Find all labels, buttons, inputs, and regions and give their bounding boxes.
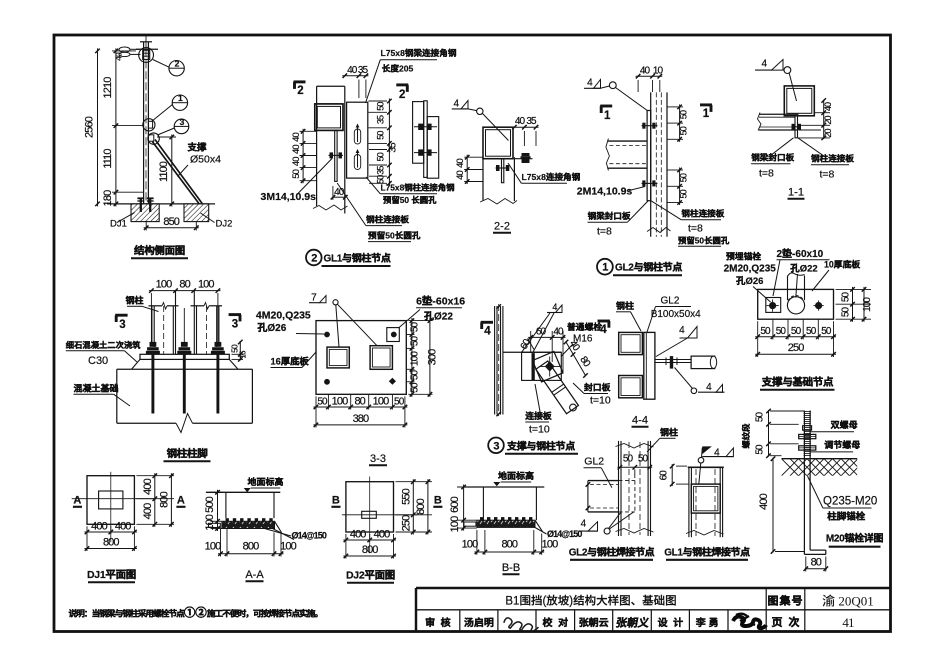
P dim 60 <box>676 465 687 467</box>
svg-text:A: A <box>73 495 81 507</box>
svg-text:2: 2 <box>399 89 405 101</box>
svg-text:35: 35 <box>375 115 385 124</box>
svg-text:40: 40 <box>291 145 302 154</box>
svg-text:GL2: GL2 <box>661 296 680 307</box>
N left dims 600 100 <box>457 486 477 488</box>
N ground top line <box>464 486 545 488</box>
svg-text:50: 50 <box>409 370 420 381</box>
Q nuts <box>799 434 816 438</box>
svg-text:汤启明: 汤启明 <box>464 617 494 629</box>
svg-text:100: 100 <box>205 541 221 553</box>
L slab dark band <box>222 521 275 528</box>
svg-text:100: 100 <box>280 541 296 553</box>
svg-text:DJ2: DJ2 <box>216 219 233 230</box>
svg-text:说明：当钢梁与钢柱采用螺栓节点①②施工不便时，可按焊接节点实: 说明：当钢梁与钢柱采用螺栓节点①②施工不便时，可按焊接节点实施。 <box>69 607 323 620</box>
K square <box>87 476 134 525</box>
svg-text:20: 20 <box>823 129 833 138</box>
I square tube 1 <box>619 332 643 354</box>
H gusset rect outline <box>522 352 562 380</box>
svg-text:孔Ø26: 孔Ø26 <box>736 275 763 287</box>
svg-text:50: 50 <box>291 169 302 178</box>
H dim 60 40 top <box>530 331 532 353</box>
svg-text:3-3: 3-3 <box>370 453 386 465</box>
svg-text:100: 100 <box>409 351 420 366</box>
B side view right plate <box>427 117 439 179</box>
svg-text:800: 800 <box>158 491 170 507</box>
O column band <box>618 441 620 536</box>
D dim 40 10 top <box>637 80 639 92</box>
I weld flag 4 bottom <box>691 388 697 394</box>
C dim 40 35 <box>523 131 525 146</box>
svg-text:6垫-60x16: 6垫-60x16 <box>416 295 465 308</box>
H title circle 3 支撑与钢柱节点 <box>488 438 504 454</box>
D bolts 2M14 <box>642 125 658 127</box>
svg-text:2M20,Q235: 2M20,Q235 <box>724 264 777 275</box>
svg-text:100: 100 <box>156 279 172 291</box>
B bolt M14 <box>329 154 344 156</box>
svg-text:t=8: t=8 <box>820 169 835 181</box>
A ground line <box>107 203 215 205</box>
svg-text:3: 3 <box>493 440 499 452</box>
N bottom dims 100 800 100 <box>476 530 478 555</box>
G square hole 2 <box>370 346 392 370</box>
A top rail line <box>136 48 158 50</box>
I center web plate <box>644 332 655 399</box>
drawing D column <box>650 92 652 236</box>
svg-text:400: 400 <box>142 503 154 519</box>
svg-text:50: 50 <box>375 131 385 140</box>
svg-text:100: 100 <box>332 395 348 407</box>
svg-text:钢柱: 钢柱 <box>660 428 678 438</box>
svg-text:校 对: 校 对 <box>542 617 569 629</box>
svg-text:41: 41 <box>842 615 854 630</box>
C beam square <box>483 127 513 159</box>
N rebar bumps <box>480 517 483 520</box>
svg-text:400: 400 <box>115 521 131 533</box>
L ground top line <box>206 491 280 493</box>
B dim 40 35 top <box>358 80 360 99</box>
svg-text:审 核: 审 核 <box>425 617 451 629</box>
svg-text:A: A <box>177 495 185 507</box>
svg-text:预埋锚栓: 预埋锚栓 <box>726 252 761 262</box>
svg-text:500: 500 <box>204 496 216 512</box>
G right dim chain <box>406 334 414 336</box>
F foundation <box>117 368 253 370</box>
svg-text:50: 50 <box>806 326 817 337</box>
J bottom dims 50x5 / 250 <box>772 319 774 339</box>
svg-text:600: 600 <box>449 496 461 512</box>
outer border frame <box>54 35 891 632</box>
svg-text:柱脚锚栓: 柱脚锚栓 <box>827 511 866 523</box>
svg-text:螺纹段: 螺纹段 <box>741 423 751 449</box>
svg-text:50: 50 <box>375 102 385 111</box>
svg-text:300: 300 <box>426 349 438 365</box>
svg-text:100: 100 <box>198 279 214 291</box>
svg-text:80: 80 <box>811 557 822 569</box>
F anchor bolts x3 <box>150 342 157 347</box>
svg-text:100: 100 <box>449 516 461 532</box>
I brace tube end <box>691 356 715 369</box>
D section mark 1 right <box>700 103 712 106</box>
svg-text:2M14,10.9s: 2M14,10.9s <box>577 186 633 198</box>
svg-text:50: 50 <box>394 396 405 407</box>
svg-text:35: 35 <box>358 65 369 76</box>
B section mark 2 right <box>396 83 408 86</box>
svg-text:长度205: 长度205 <box>382 64 414 74</box>
svg-text:40: 40 <box>291 133 302 142</box>
A anchor bolts in DJ1 <box>140 198 142 213</box>
C lower plate and bolt <box>502 159 504 183</box>
svg-text:800: 800 <box>415 498 427 514</box>
svg-text:1100: 1100 <box>158 161 170 182</box>
svg-text:t=10: t=10 <box>529 424 550 436</box>
svg-text:Ø14@150: Ø14@150 <box>547 529 582 539</box>
F extension lines from dim to bolts <box>150 293 152 342</box>
svg-text:B: B <box>332 495 340 507</box>
P beam square <box>691 484 720 513</box>
svg-text:35: 35 <box>526 116 537 127</box>
B dim 40 bottom <box>332 186 334 200</box>
svg-text:50: 50 <box>375 152 385 161</box>
H section mark 4 right <box>598 320 610 323</box>
svg-text:页 次: 页 次 <box>771 616 800 629</box>
A dim 850 <box>145 222 147 231</box>
svg-text:3M14,10.9s: 3M14,10.9s <box>261 191 317 203</box>
F grout trapezoid <box>132 359 141 369</box>
svg-text:钢柱: 钢柱 <box>616 301 634 311</box>
B side view middle strip <box>424 101 428 178</box>
svg-text:250: 250 <box>400 515 412 531</box>
B slot holes with arrows <box>354 129 360 144</box>
svg-text:400: 400 <box>758 493 770 509</box>
svg-text:结构侧面图: 结构侧面图 <box>133 244 185 257</box>
M bottom dims 400 400 / 800 <box>345 534 347 559</box>
svg-text:50: 50 <box>679 173 689 182</box>
title block table <box>416 587 891 589</box>
svg-text:800: 800 <box>362 544 378 556</box>
D title circle 1 GL2与钢柱节点 <box>597 259 613 275</box>
H rotated connection square <box>532 351 563 382</box>
svg-text:10厚底板: 10厚底板 <box>824 260 860 270</box>
svg-text:3: 3 <box>232 319 238 331</box>
A top detail bubble <box>139 48 154 63</box>
M square <box>346 482 394 532</box>
Q ground line + hatch <box>782 458 858 460</box>
svg-text:50: 50 <box>679 110 689 119</box>
svg-text:Q235-M20: Q235-M20 <box>823 496 877 508</box>
F section mark 3 left <box>115 314 127 317</box>
svg-text:GL2: GL2 <box>584 456 604 468</box>
svg-text:50: 50 <box>755 412 766 423</box>
svg-text:800: 800 <box>103 537 119 549</box>
J washer square <box>766 298 781 313</box>
svg-text:混凝土基础: 混凝土基础 <box>74 383 119 393</box>
N slab dark band <box>477 520 535 527</box>
svg-text:M16: M16 <box>573 334 593 345</box>
svg-text:钢柱: 钢柱 <box>125 296 143 306</box>
svg-text:4M20,Q235: 4M20,Q235 <box>256 310 311 322</box>
I square tube 2 <box>619 376 643 398</box>
B right dim chain upper <box>369 100 388 102</box>
svg-text:80: 80 <box>354 395 365 407</box>
svg-text:50: 50 <box>841 307 852 318</box>
B left dim chain 40 40 40 50 <box>300 130 317 132</box>
J right bolt <box>815 302 822 309</box>
svg-text:20: 20 <box>823 116 833 125</box>
svg-text:100: 100 <box>204 514 216 530</box>
svg-text:张朝义: 张朝义 <box>615 617 651 630</box>
svg-text:调节螺母: 调节螺母 <box>824 440 860 450</box>
svg-text:B1围挡(放坡)结构大样图、基础图: B1围挡(放坡)结构大样图、基础图 <box>505 595 676 608</box>
svg-text:10: 10 <box>653 65 664 76</box>
svg-text:50: 50 <box>821 326 832 337</box>
Q dim 80 <box>805 557 807 572</box>
C right bolt on plate <box>514 158 532 160</box>
svg-text:40: 40 <box>640 65 651 76</box>
J tube up <box>787 276 789 301</box>
svg-text:50: 50 <box>791 326 802 337</box>
F dim 50 16 right <box>232 353 244 355</box>
svg-text:2560: 2560 <box>84 116 96 138</box>
N side verticals <box>482 487 484 520</box>
B side view bolts <box>414 126 437 128</box>
svg-text:支撑: 支撑 <box>186 142 207 154</box>
K right dims 400 400 / 800 <box>136 475 174 477</box>
svg-text:图集号: 图集号 <box>768 595 804 608</box>
svg-text:50: 50 <box>409 322 420 333</box>
svg-text:L75x8连接角钢: L75x8连接角钢 <box>522 172 581 182</box>
M inner bar <box>362 511 377 518</box>
svg-text:40: 40 <box>455 171 466 180</box>
Q dim 400 <box>772 458 774 553</box>
svg-text:40: 40 <box>515 116 526 127</box>
svg-text:GL2与钢柱焊接节点: GL2与钢柱焊接节点 <box>569 547 655 559</box>
A lower bubble on post <box>148 133 159 144</box>
svg-text:50: 50 <box>409 336 420 347</box>
svg-text:50: 50 <box>755 444 766 455</box>
svg-text:800: 800 <box>243 541 259 553</box>
F top dim 100 80 100 <box>149 290 221 292</box>
drawing A 结构侧面图 post <box>145 37 147 50</box>
svg-text:400: 400 <box>142 478 154 494</box>
svg-text:孔Ø22: 孔Ø22 <box>790 263 817 275</box>
svg-text:A-A: A-A <box>245 569 264 581</box>
svg-text:GL2与钢柱节点: GL2与钢柱节点 <box>615 262 682 274</box>
svg-text:2垫-60x10: 2垫-60x10 <box>777 248 824 260</box>
A brace 支撑 <box>155 140 202 204</box>
svg-text:1110: 1110 <box>102 149 114 169</box>
svg-text:预留50长圆孔: 预留50长圆孔 <box>368 230 421 240</box>
svg-text:t=8: t=8 <box>597 226 612 238</box>
svg-text:t=8: t=8 <box>688 223 703 235</box>
A mid bubble on post <box>143 119 155 131</box>
A dim 2560 <box>97 48 99 206</box>
svg-text:Ø50x4: Ø50x4 <box>190 154 221 166</box>
svg-text:4-4: 4-4 <box>632 415 648 427</box>
P column band <box>688 467 690 537</box>
D connection plate <box>647 111 651 201</box>
svg-text:2: 2 <box>311 253 317 265</box>
svg-text:40: 40 <box>823 102 833 111</box>
svg-text:细石混凝土二次浇筑: 细石混凝土二次浇筑 <box>65 340 141 350</box>
svg-text:400: 400 <box>350 529 366 541</box>
G plate rect <box>316 321 406 395</box>
M right dims 550 250 / 800 <box>396 481 433 483</box>
svg-text:B-B: B-B <box>502 562 520 574</box>
L bottom dims 100 800 100 <box>220 529 222 557</box>
svg-text:M20锚栓详图: M20锚栓详图 <box>826 533 884 545</box>
E column square <box>784 86 814 116</box>
svg-text:100: 100 <box>373 395 389 407</box>
E beam from left <box>759 113 799 115</box>
svg-text:35: 35 <box>375 166 385 175</box>
svg-text:L75x8钢梁连接角钢: L75x8钢梁连接角钢 <box>381 48 457 58</box>
svg-text:40: 40 <box>347 65 358 76</box>
G square hole 1 <box>327 347 349 368</box>
svg-text:40: 40 <box>553 326 564 337</box>
svg-text:40: 40 <box>291 157 302 166</box>
Q rod L-bottom <box>803 550 805 554</box>
D beam left <box>607 140 647 142</box>
svg-text:DJ1平面图: DJ1平面图 <box>87 569 136 581</box>
C left dim chain 40 40 <box>464 156 483 158</box>
A footing DJ2 hatched <box>184 204 209 222</box>
svg-text:GL1与钢柱焊接节点: GL1与钢柱焊接节点 <box>664 547 750 559</box>
svg-text:1210: 1210 <box>102 77 114 99</box>
svg-text:1-1: 1-1 <box>788 187 804 199</box>
A detail circle 1 <box>172 95 187 110</box>
H column <box>494 306 496 415</box>
svg-text:支撑与钢柱节点: 支撑与钢柱节点 <box>506 440 575 452</box>
svg-text:B: B <box>434 495 442 507</box>
A detail circle 3 <box>174 119 189 134</box>
svg-text:双螺母: 双螺母 <box>830 420 858 430</box>
svg-text:钢梁封口板: 钢梁封口板 <box>588 211 631 221</box>
svg-text:t=8: t=8 <box>759 168 774 180</box>
F column 2 <box>191 305 205 307</box>
svg-text:100: 100 <box>542 539 558 551</box>
svg-text:C30: C30 <box>88 355 108 367</box>
svg-text:60: 60 <box>658 470 669 481</box>
H diagonal dim 40 80 <box>566 342 586 376</box>
A dim chain 1210/1110/180 <box>112 50 136 52</box>
L left dims 500 100 <box>211 491 222 493</box>
F column 1 <box>149 305 163 307</box>
H diamond bolt with cross <box>549 357 551 377</box>
svg-text:张朝云: 张朝云 <box>579 617 609 629</box>
svg-text:50: 50 <box>760 326 771 337</box>
svg-text:设 计: 设 计 <box>658 617 684 629</box>
P top cap line <box>688 466 724 468</box>
svg-text:2-2: 2-2 <box>494 221 510 233</box>
svg-text:李勇: 李勇 <box>695 617 722 629</box>
D section mark 1 left <box>600 105 612 108</box>
svg-text:DJ2平面图: DJ2平面图 <box>346 570 395 582</box>
svg-text:400: 400 <box>91 521 107 533</box>
svg-text:预留50 长圆孔: 预留50 长圆孔 <box>383 195 437 205</box>
svg-text:400: 400 <box>374 529 390 541</box>
svg-text:钢梁封口板: 钢梁封口板 <box>751 153 794 163</box>
L side verticals <box>225 492 227 518</box>
svg-text:50: 50 <box>776 326 787 337</box>
svg-text:35: 35 <box>388 142 399 153</box>
svg-text:钢柱柱脚: 钢柱柱脚 <box>167 447 209 460</box>
E connection plate below <box>795 116 798 138</box>
D right dim chain lower 50 50 <box>667 169 683 171</box>
I bolt assembly <box>655 359 691 361</box>
svg-text:16厚底板: 16厚底板 <box>271 356 310 367</box>
svg-text:100: 100 <box>862 297 873 312</box>
G bolt holes <box>324 332 330 338</box>
svg-text:80: 80 <box>179 279 190 291</box>
A detail circle 2 <box>169 60 184 75</box>
svg-text:渝 20Q01: 渝 20Q01 <box>822 594 874 609</box>
svg-text:预留50长圆孔: 预留50长圆孔 <box>678 235 730 245</box>
B right dim chain lower <box>369 149 387 151</box>
svg-text:孔Ø26: 孔Ø26 <box>257 322 286 334</box>
svg-text:50: 50 <box>623 454 634 465</box>
svg-text:50: 50 <box>679 126 689 135</box>
svg-text:Ø14@150: Ø14@150 <box>292 531 327 541</box>
B beam square GL1 <box>315 104 343 130</box>
F section mark 3 right <box>229 313 241 316</box>
H gusset plate thick bar <box>532 353 535 380</box>
O dim 50 50 <box>634 469 636 478</box>
svg-text:3: 3 <box>119 319 125 331</box>
J plate rect <box>758 289 834 319</box>
H brace tube <box>536 361 579 414</box>
svg-text:地面标高: 地面标高 <box>247 477 283 487</box>
A cap ellipse + 40 label <box>119 47 130 52</box>
svg-text:60: 60 <box>536 326 547 337</box>
F base plate <box>140 354 229 359</box>
svg-text:40: 40 <box>114 52 124 61</box>
B section mark 2 left <box>294 80 306 83</box>
svg-text:1: 1 <box>602 262 608 274</box>
Q threaded rod <box>803 411 805 551</box>
svg-text:封口板: 封口板 <box>584 383 611 393</box>
svg-text:t=10: t=10 <box>590 395 611 407</box>
A dim 1100 <box>157 136 176 138</box>
svg-text:50: 50 <box>409 382 420 393</box>
B side view left plate <box>413 102 424 164</box>
signature 1 <box>503 615 538 634</box>
A footing DJ1 hatched <box>131 204 159 222</box>
svg-text:100: 100 <box>462 539 478 551</box>
svg-text:DJ1: DJ1 <box>110 219 127 230</box>
H gusset top line <box>503 351 561 353</box>
J right dims 50 50 / 100 <box>836 288 872 290</box>
K bottom dims 400 400 / 800 <box>86 526 88 551</box>
svg-text:连接板: 连接板 <box>524 411 552 421</box>
svg-text:380: 380 <box>353 413 369 425</box>
svg-text:钢柱连接板: 钢柱连接板 <box>681 209 724 219</box>
L rebar bumps <box>226 518 229 521</box>
O beam GL2 <box>588 480 619 482</box>
svg-text:2: 2 <box>297 85 303 97</box>
svg-text:B100x50x4: B100x50x4 <box>651 309 701 320</box>
H section mark 4 left <box>481 321 493 324</box>
svg-text:钢柱连接板: 钢柱连接板 <box>811 154 854 164</box>
B title circle 2 GL1与钢柱节点 <box>306 250 322 266</box>
svg-text:50: 50 <box>317 396 328 407</box>
svg-text:550: 550 <box>400 488 412 504</box>
G bottom dim chain <box>327 394 329 409</box>
svg-text:支撑与基础节点: 支撑与基础节点 <box>761 376 834 389</box>
G washer box top-right <box>387 328 400 342</box>
svg-text:地面标高: 地面标高 <box>498 471 534 481</box>
P weld flag <box>698 457 704 463</box>
